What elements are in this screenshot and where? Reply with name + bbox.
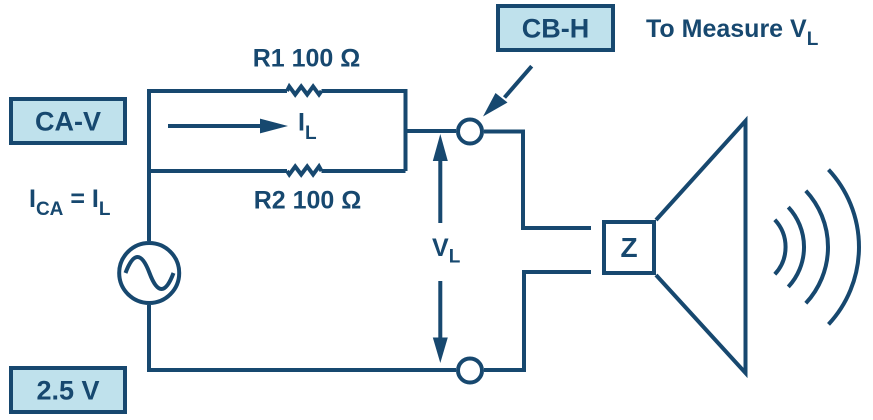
svg-text:CA-V: CA-V xyxy=(35,107,101,137)
speaker cone xyxy=(656,121,746,373)
VL measure down arrow xyxy=(433,281,448,363)
svg-text:R1 100 Ω: R1 100 Ω xyxy=(253,45,361,73)
svg-text:R2 100 Ω: R2 100 Ω xyxy=(254,187,362,215)
wire R2 right segment xyxy=(322,169,406,173)
svg-text:Z: Z xyxy=(620,232,637,263)
sound wave arc 4 xyxy=(829,170,859,325)
text ICA = IL xyxy=(29,185,111,220)
arrow CB-H pointer xyxy=(483,66,532,116)
AC source V1 2.5V xyxy=(119,243,179,303)
node terminal top (CB-H probe point) xyxy=(458,120,482,144)
sound wave arc 3 xyxy=(806,191,828,304)
sound wave arc 1 xyxy=(775,220,786,275)
node terminal bottom xyxy=(458,359,482,383)
resistor R2 xyxy=(287,167,322,175)
wire R2 left segment xyxy=(149,169,287,173)
label box 2.5 V xyxy=(11,368,125,412)
sound wave arc 2 xyxy=(788,207,804,287)
wire middle from loop to top node xyxy=(406,129,457,133)
current arrow IL xyxy=(168,119,288,134)
wire top-right to Z xyxy=(484,132,591,229)
wire from source to R1 (left vertical + top-left segment) xyxy=(149,91,287,241)
label box CA-V xyxy=(11,99,125,143)
label box CB-H xyxy=(498,6,613,50)
svg-text:2.5 V: 2.5 V xyxy=(36,376,99,406)
VL measure up arrow xyxy=(433,134,448,223)
wire source bottom to bottom rail xyxy=(147,305,151,368)
svg-text:CB-H: CB-H xyxy=(522,14,590,44)
text To Measure VL xyxy=(646,15,819,50)
wire bottom-right to Z xyxy=(484,272,591,370)
wire bottom rail xyxy=(147,368,456,372)
impedance box Z xyxy=(604,222,654,273)
resistor R1 xyxy=(287,87,322,95)
wire top-right segment + right vertical of loop xyxy=(322,91,406,171)
